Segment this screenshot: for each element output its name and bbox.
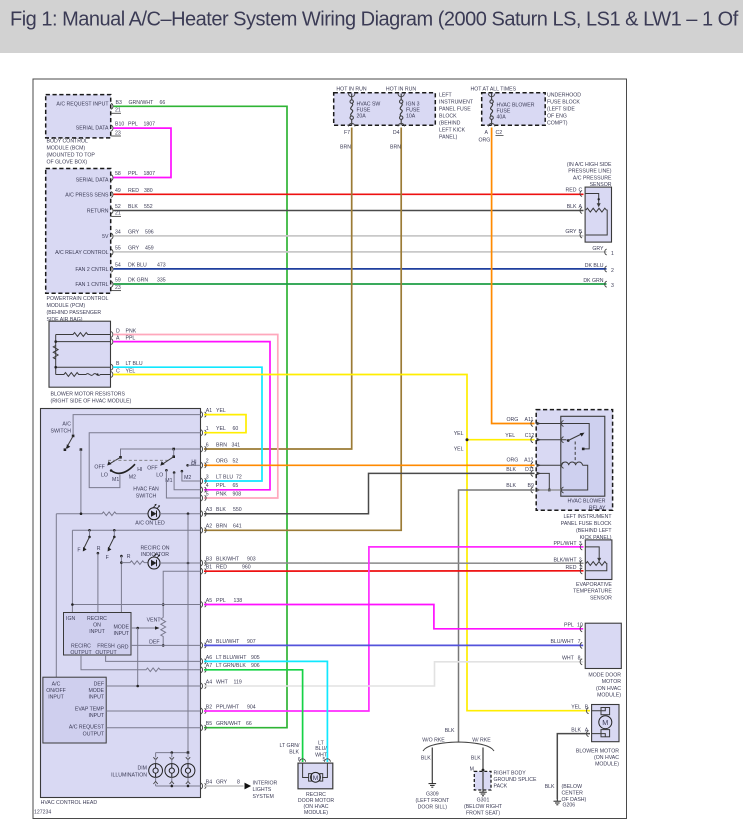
svg-text:RED: RED: [566, 188, 577, 194]
svg-text:RED: RED: [128, 188, 139, 194]
svg-text:21: 21: [115, 211, 121, 217]
svg-text:M: M: [602, 718, 608, 727]
svg-text:INPUT: INPUT: [113, 631, 129, 637]
svg-text:A1: A1: [206, 408, 212, 414]
svg-text:OUTPUT: OUTPUT: [95, 650, 117, 656]
svg-text:ORG: ORG: [506, 417, 518, 423]
evaporative temperature sensor internals: [585, 547, 607, 571]
svg-text:21: 21: [115, 108, 121, 114]
svg-text:1: 1: [579, 565, 582, 571]
wire BRN 641 from fuse D4 to control head pin A2: [204, 128, 401, 531]
diagram frame: [33, 79, 627, 819]
svg-text:BLK: BLK: [289, 750, 299, 756]
svg-text:A8: A8: [206, 639, 212, 645]
wire through splice pack: [482, 771, 484, 790]
svg-text:FAN 1 CNTRL: FAN 1 CNTRL: [75, 282, 108, 288]
svg-text:MODULE (PCM): MODULE (PCM): [47, 303, 86, 309]
svg-text:ON: ON: [93, 622, 101, 628]
svg-text:A3: A3: [206, 507, 212, 513]
wire GRY 8 to interior lights: [204, 785, 244, 787]
PCM pin 34: [111, 230, 154, 240]
ground G206: [554, 799, 562, 805]
svg-text:LT GRN/BLK: LT GRN/BLK: [216, 663, 246, 669]
svg-text:A7: A7: [206, 663, 212, 669]
svg-text:907: 907: [247, 639, 256, 645]
svg-text:PRESSURE LINE): PRESSURE LINE): [568, 169, 612, 175]
svg-text:52: 52: [233, 459, 239, 465]
wire BLK branch to splice pack: [470, 748, 485, 773]
svg-text:MODULE): MODULE): [595, 762, 619, 768]
relay pin A12: [506, 458, 563, 469]
svg-text:FUSE BLOCK: FUSE BLOCK: [547, 100, 580, 106]
control head pin 2 ORG 52: [201, 459, 239, 469]
relay pin B9: [506, 483, 563, 493]
svg-text:LT BLU: LT BLU: [126, 361, 143, 367]
lamp dim illumination at x=171.8: [165, 753, 179, 786]
svg-text:GRY: GRY: [128, 246, 140, 252]
svg-text:OF ENG: OF ENG: [547, 114, 567, 120]
interior lights system arrow: [245, 783, 252, 790]
svg-text:ORG: ORG: [506, 458, 518, 464]
svg-text:PNK: PNK: [126, 329, 137, 335]
svg-text:8: 8: [237, 779, 240, 785]
svg-text:MOTOR: MOTOR: [602, 679, 621, 685]
svg-text:60: 60: [233, 426, 239, 432]
svg-text:A4: A4: [206, 679, 212, 685]
control head pin A4 WHT 119: [201, 679, 242, 689]
svg-text:641: 641: [233, 524, 242, 530]
relay coil: [562, 462, 588, 490]
svg-text:BLU/: BLU/: [315, 746, 327, 752]
svg-text:903: 903: [247, 556, 256, 562]
svg-text:(BEHIND LEFT: (BEHIND LEFT: [576, 528, 612, 534]
control head internal: evap temp to pin B2: [106, 710, 200, 712]
svg-text:55: 55: [115, 246, 121, 252]
svg-text:DK BLU: DK BLU: [128, 263, 147, 269]
svg-text:GRN/WHT: GRN/WHT: [129, 100, 155, 106]
svg-text:W/ RKE: W/ RKE: [472, 738, 491, 744]
svg-text:BLK: BLK: [216, 507, 226, 513]
node V1 A/C on-off feed: [55, 514, 57, 678]
svg-text:BRN: BRN: [216, 442, 227, 448]
relay fixed contact: [562, 424, 590, 449]
svg-text:RECIRC: RECIRC: [71, 643, 91, 649]
svg-text:BLOCK: BLOCK: [439, 114, 457, 120]
left instrument panel fuse block label: [439, 93, 474, 141]
ground G301: [479, 790, 487, 796]
svg-text:SENSOR: SENSOR: [590, 595, 612, 601]
svg-text:1807: 1807: [144, 171, 156, 177]
svg-text:BLK: BLK: [421, 756, 431, 762]
svg-text:M: M: [470, 767, 474, 773]
svg-text:(BEHIND: (BEHIND: [439, 121, 461, 127]
control head pin A6 LT BLU/WHT 905: [201, 655, 260, 665]
svg-text:MODULE): MODULE): [304, 810, 328, 816]
body control module BCM box: [46, 95, 111, 138]
wire BLK blower motor A to ground G206: [557, 734, 590, 799]
svg-text:M2: M2: [184, 475, 191, 481]
svg-text:BLK: BLK: [545, 784, 555, 790]
svg-text:PANEL FUSE BLOCK: PANEL FUSE BLOCK: [561, 521, 612, 527]
svg-text:SERIAL DATA: SERIAL DATA: [76, 125, 109, 131]
svg-text:(LEFT FRONT: (LEFT FRONT: [415, 798, 449, 804]
control head pin A2 BRN 641: [201, 524, 242, 534]
wire BLK 550 control head A3 to relay D11: [204, 473, 535, 513]
svg-text:INSTRUMENT: INSTRUMENT: [439, 100, 474, 106]
svg-text:127234: 127234: [34, 810, 51, 816]
PCM pin 54: [111, 263, 166, 273]
evaporative temperature sensor label: [573, 582, 612, 601]
powertrain control module PCM box: [46, 169, 111, 294]
fuse HVAC SW FUSE 20A: [344, 94, 380, 137]
HVAC fan switch label: [133, 487, 159, 500]
svg-text:RELAY: RELAY: [589, 505, 606, 511]
svg-text:DK GRN: DK GRN: [583, 278, 603, 284]
fuse HVAC BLOWER FUSE 40A: [485, 94, 535, 137]
svg-text:A/C PRESS SENS: A/C PRESS SENS: [65, 192, 109, 198]
dimmer lamp bottom bus to pin B4: [156, 785, 201, 788]
ground G309 label: [415, 792, 449, 811]
svg-text:HI: HI: [137, 467, 142, 473]
control head pin B5 GRN/WHT 66: [201, 721, 252, 731]
svg-text:905: 905: [251, 655, 260, 661]
svg-text:M1: M1: [112, 477, 119, 483]
svg-text:GRY: GRY: [565, 229, 577, 235]
svg-text:1807: 1807: [144, 122, 156, 128]
recirc door motor label: [298, 792, 334, 816]
svg-text:B3: B3: [206, 556, 212, 562]
wire GRN/WHT 66 from BCM B3 down to control head B5: [114, 106, 288, 727]
PCM pin 58: [111, 171, 155, 181]
wire ORG from fuse C2 to blower relay A11: [492, 128, 535, 424]
svg-text:PPL: PPL: [216, 483, 226, 489]
svg-text:5: 5: [206, 491, 209, 497]
svg-text:138: 138: [234, 598, 243, 604]
svg-text:HVAC FAN: HVAC FAN: [133, 487, 159, 493]
svg-text:M: M: [313, 775, 319, 782]
svg-text:10A: 10A: [406, 114, 416, 120]
HVAC blower relay dashed box: [536, 410, 612, 511]
svg-text:A/C REQUEST INPUT: A/C REQUEST INPUT: [56, 102, 109, 108]
svg-text:40A: 40A: [497, 115, 507, 121]
resistors pin B: [111, 361, 143, 370]
A/C pressure sensor box: [585, 187, 611, 242]
BCM pin B10: [111, 122, 155, 132]
recirc door motor pin 6: [298, 757, 306, 763]
svg-text:BLK: BLK: [571, 728, 581, 734]
left instrument panel fuse block label 2: [561, 514, 613, 541]
control head internal: recirc on indicator LED: [120, 546, 200, 570]
svg-text:PPL: PPL: [216, 598, 226, 604]
relay switch arm: [567, 433, 585, 442]
svg-text:EVAPORATIVE: EVAPORATIVE: [576, 582, 612, 588]
wire DK GRN 335 PCM 59 to connector pin 3: [114, 283, 607, 285]
svg-text:B9: B9: [528, 483, 534, 489]
svg-text:ON/OFF: ON/OFF: [46, 688, 66, 694]
recirc door motor box: [298, 763, 333, 789]
svg-text:OUTPUT: OUTPUT: [83, 731, 105, 737]
svg-text:(LEFT SIDE: (LEFT SIDE: [547, 107, 575, 113]
svg-text:119: 119: [234, 679, 242, 685]
svg-text:FRONT SEAT): FRONT SEAT): [466, 811, 500, 817]
svg-text:(BEHIND PASSENGER: (BEHIND PASSENGER: [47, 310, 102, 316]
svg-text:(IN A/C HIGH SIDE: (IN A/C HIGH SIDE: [567, 162, 612, 168]
svg-text:A: A: [579, 204, 583, 210]
control head internal: recirc output resistor to pin A7: [81, 655, 201, 672]
A/C pressure sensor pin A: [567, 204, 583, 214]
svg-text:DEF: DEF: [94, 681, 104, 687]
svg-text:R: R: [97, 546, 101, 552]
svg-text:2: 2: [206, 459, 209, 465]
svg-text:(ON HVAC: (ON HVAC: [594, 755, 619, 761]
svg-text:(BELOW: (BELOW: [562, 784, 583, 790]
svg-text:B10: B10: [115, 122, 124, 128]
mode door motor pin 8: [562, 656, 582, 665]
wire PPL/WHT 904 control head B2 to evap sensor 3: [204, 547, 584, 711]
PCM pin 55: [111, 246, 154, 256]
svg-text:960: 960: [242, 565, 251, 571]
svg-text:FAN 2 CNTRL: FAN 2 CNTRL: [75, 267, 108, 273]
BCM pin 23 stub: [111, 130, 121, 136]
svg-text:B: B: [585, 705, 589, 711]
svg-text:LT GRN/: LT GRN/: [280, 743, 301, 749]
svg-text:SYSTEM: SYSTEM: [253, 794, 274, 800]
svg-text:HOT IN RUN: HOT IN RUN: [386, 86, 416, 92]
svg-text:LEFT INSTRUMENT: LEFT INSTRUMENT: [563, 514, 612, 520]
dimmer lamp top bus: [156, 751, 190, 754]
svg-text:908: 908: [233, 491, 242, 497]
wire YEL A1 jumper to pin 1: [204, 415, 246, 433]
relay pin A11: [506, 417, 563, 427]
lamp dim illumination at x=155.6: [149, 753, 163, 786]
svg-text:PANEL): PANEL): [439, 135, 458, 141]
blower motor internals: [592, 708, 612, 737]
svg-text:F: F: [77, 548, 80, 554]
svg-text:F7: F7: [344, 130, 350, 136]
svg-text:D4: D4: [393, 130, 400, 136]
svg-text:65: 65: [233, 483, 239, 489]
svg-text:8: 8: [578, 656, 581, 662]
svg-text:OF GLOVE BOX): OF GLOVE BOX): [47, 160, 88, 166]
wire BRN 341 from fuse F7 to control head pin 6: [204, 128, 352, 450]
connector pin 3 DK GRN: [583, 278, 614, 289]
svg-text:B2: B2: [206, 704, 212, 710]
svg-text:7: 7: [578, 639, 581, 645]
svg-text:GRY: GRY: [128, 230, 140, 236]
svg-text:WHT: WHT: [562, 656, 575, 662]
svg-text:DEF: DEF: [149, 640, 159, 646]
svg-text:INPUT: INPUT: [88, 695, 104, 701]
svg-text:906: 906: [251, 663, 260, 669]
svg-text:BLK: BLK: [471, 756, 481, 762]
svg-text:459: 459: [145, 246, 154, 252]
svg-text:BLK: BLK: [445, 728, 455, 734]
ground G301 label: [464, 798, 503, 817]
svg-text:A5: A5: [206, 598, 212, 604]
control head internal: HVAC fan switch 2: [147, 455, 200, 498]
resistors pin A: [111, 336, 136, 345]
svg-text:MODE: MODE: [113, 625, 129, 631]
svg-text:34: 34: [115, 230, 121, 236]
svg-text:GRY: GRY: [592, 246, 604, 252]
svg-text:G301: G301: [477, 798, 490, 804]
svg-text:SWITCH: SWITCH: [51, 429, 72, 435]
svg-text:BRN: BRN: [216, 524, 227, 530]
svg-text:380: 380: [144, 188, 153, 194]
recirc wire labels: [280, 740, 328, 758]
node V6 def mode link: [137, 628, 139, 686]
svg-text:23: 23: [115, 130, 121, 136]
control head pin 1 YEL 60: [201, 426, 239, 436]
control head pin B3 BLK/WHT 903: [201, 556, 256, 566]
control head pin 5 PNK 908: [201, 491, 241, 501]
svg-text:PPL/WHT: PPL/WHT: [553, 541, 577, 547]
wire BLK 552 PCM 52 to AC pressure sensor A: [114, 210, 584, 212]
svg-text:POWERTRAIN CONTROL: POWERTRAIN CONTROL: [47, 296, 109, 302]
svg-text:PACK: PACK: [494, 784, 508, 790]
svg-text:2: 2: [611, 268, 614, 274]
svg-text:A: A: [585, 728, 589, 734]
svg-text:LEFT KICK: LEFT KICK: [439, 128, 466, 134]
svg-text:BLK: BLK: [506, 483, 516, 489]
control head internal: HVAC fan switch 1: [94, 456, 170, 483]
svg-text:BLOWER MOTOR RESISTORS: BLOWER MOTOR RESISTORS: [51, 391, 126, 397]
svg-text:A/C ON LED: A/C ON LED: [135, 521, 165, 527]
control head internal: B1 ign feed and mode potentiometer: [147, 571, 201, 647]
wire GRY 596 PCM 34 to AC pressure sensor B: [114, 235, 584, 237]
splice brace W/O RKE vs W/ RKE: [423, 742, 494, 751]
wire RED 380 PCM 49 to AC pressure sensor C: [114, 193, 584, 195]
svg-text:LIGHTS: LIGHTS: [253, 787, 272, 793]
node V7 dimmer feed: [187, 514, 189, 753]
svg-text:PPL: PPL: [126, 336, 136, 342]
svg-text:LEFT: LEFT: [439, 93, 453, 99]
svg-text:BRN: BRN: [340, 145, 351, 151]
svg-text:Fig 1: Manual A/C–Heater Syste: Fig 1: Manual A/C–Heater System Wiring D…: [10, 8, 739, 30]
A/C pressure sensor pin B: [565, 229, 582, 238]
control head internal: GRD to pin A8: [131, 644, 201, 646]
evaporative temperature sensor box: [585, 540, 612, 580]
svg-text:(BELOW RIGHT: (BELOW RIGHT: [464, 804, 503, 810]
svg-text:SERIAL DATA: SERIAL DATA: [76, 177, 109, 183]
control head pin A3 BLK 550: [201, 507, 242, 517]
svg-text:G309: G309: [426, 792, 439, 798]
svg-text:6: 6: [206, 442, 209, 448]
control head internal: def mode to pin A4: [106, 685, 200, 688]
wire PPL resistors A to control head pin 4: [113, 342, 270, 490]
wire BLK branch to G309: [421, 748, 432, 782]
connector pin 1 GRY: [592, 246, 614, 257]
svg-text:A/C PRESSURE: A/C PRESSURE: [573, 175, 612, 181]
evap sensor pin 1: [566, 565, 583, 574]
svg-text:RED: RED: [566, 565, 577, 571]
svg-text:BLOWER MOTOR: BLOWER MOTOR: [576, 748, 619, 754]
svg-text:10: 10: [577, 623, 583, 629]
svg-text:MODULE): MODULE): [597, 693, 621, 699]
svg-text:MODE DOOR: MODE DOOR: [588, 673, 621, 679]
svg-text:YEL: YEL: [571, 705, 581, 711]
svg-text:C12: C12: [525, 433, 535, 439]
HVAC blower relay label: [568, 499, 606, 512]
svg-text:335: 335: [157, 278, 166, 284]
svg-text:A2: A2: [206, 524, 212, 530]
A/C pressure sensor internals: [585, 194, 607, 236]
svg-text:23: 23: [115, 285, 121, 291]
control head pin A7 LT GRN/BLK 906: [201, 663, 260, 673]
control head internal: recirc F/R switch 1: [77, 530, 100, 612]
mode door motor label: [588, 673, 621, 699]
wire LT BLU resistors B to control head pin 3: [113, 367, 262, 481]
resistors pin C: [111, 369, 136, 378]
svg-text:INTERIOR: INTERIOR: [253, 781, 278, 787]
svg-text:904: 904: [247, 704, 256, 710]
svg-text:DK BLU: DK BLU: [585, 263, 604, 269]
svg-text:EVAP TEMP: EVAP TEMP: [75, 706, 105, 712]
svg-text:BLK/WHT: BLK/WHT: [553, 557, 577, 563]
mode door motor box: [585, 623, 621, 668]
wire BLK relay B9 to body grounds: [459, 490, 535, 742]
wire ORG 52 control head pin 2 to relay A12: [204, 464, 535, 466]
svg-text:YEL: YEL: [454, 431, 464, 437]
svg-text:PPL: PPL: [564, 623, 574, 629]
svg-text:G206: G206: [563, 803, 576, 809]
PCM pin 59: [111, 278, 166, 288]
svg-text:58: 58: [115, 171, 121, 177]
blower motor pin A BLK: [571, 728, 589, 737]
svg-text:INPUT: INPUT: [89, 629, 105, 635]
svg-text:PNK: PNK: [216, 491, 227, 497]
svg-text:PANEL FUSE: PANEL FUSE: [439, 107, 471, 113]
control head internal: fan switch feed from pin 6: [121, 448, 201, 456]
svg-text:B: B: [579, 229, 583, 235]
svg-text:596: 596: [145, 230, 154, 236]
svg-text:A: A: [485, 130, 489, 136]
svg-text:552: 552: [144, 204, 153, 210]
svg-text:BODY CONTROL: BODY CONTROL: [47, 139, 89, 145]
svg-text:A/C REQUEST: A/C REQUEST: [69, 725, 105, 731]
svg-text:R: R: [127, 554, 131, 560]
svg-text:LT BLU/WHT: LT BLU/WHT: [216, 655, 247, 661]
relay pin D11: [506, 467, 550, 491]
svg-text:ORG: ORG: [216, 459, 228, 465]
mode input box (IGN/RECIRC): [64, 613, 132, 656]
svg-text:C: C: [579, 188, 583, 194]
svg-text:B: B: [116, 361, 120, 367]
relay pin C12: [505, 433, 566, 443]
connector B3 pin bracket helper styles are inline: [34, 86, 621, 816]
svg-text:IGN: IGN: [66, 616, 75, 622]
svg-text:UNDERHOOD: UNDERHOOD: [547, 93, 581, 99]
BCM label: [47, 139, 96, 166]
wire YEL resistors C to relay C12 and blower motor B: [113, 375, 590, 711]
blower motor resistors box: [49, 321, 111, 387]
title bar: [0, 0, 743, 53]
resistors pin D: [111, 329, 137, 338]
ground G206 label: [562, 784, 587, 809]
svg-text:MODE: MODE: [88, 688, 104, 694]
svg-text:A: A: [116, 336, 120, 342]
blower motor resistors label: [51, 391, 132, 404]
splice pack label: [494, 771, 537, 790]
svg-text:ILLUMINATION: ILLUMINATION: [111, 772, 147, 778]
svg-text:LO: LO: [101, 472, 108, 478]
svg-text:HOT AT ALL TIMES: HOT AT ALL TIMES: [471, 86, 517, 92]
svg-text:(RIGHT SIDE OF HVAC MODULE): (RIGHT SIDE OF HVAC MODULE): [51, 398, 132, 404]
PCM pin 23 stub: [111, 285, 121, 291]
svg-text:2: 2: [579, 557, 582, 563]
svg-text:D: D: [116, 329, 120, 335]
mode door motor pin 10: [564, 623, 583, 632]
